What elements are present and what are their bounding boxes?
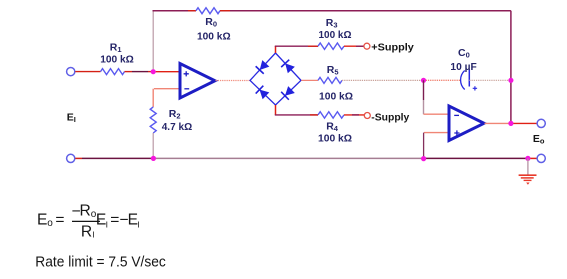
wire R1 to junction — [125, 71, 133, 73]
diode D1 top-left — [256, 60, 270, 74]
node B junction — [508, 78, 513, 83]
wire node A to capacitor — [424, 79, 461, 81]
svg-text:C0: C0 — [458, 47, 470, 60]
wire R4 to -supply terminal — [344, 114, 364, 116]
svg-text:R: R — [80, 203, 91, 220]
wire to op-amp U2 - input — [424, 113, 449, 115]
svg-text:=: = — [110, 211, 119, 228]
wire -supply row — [275, 114, 318, 116]
wire bridge right to R5 — [301, 79, 318, 81]
op-amp U2 minus sign — [454, 114, 459, 116]
wire — [528, 157, 537, 159]
svg-text:R1: R1 — [110, 41, 122, 54]
diode bridge diamond — [250, 53, 301, 105]
svg-text:100 kΩ: 100 kΩ — [100, 54, 134, 66]
wire op-amp - input horizontal — [154, 88, 179, 90]
op-amp U1 minus sign — [184, 88, 189, 90]
resistor R2 — [150, 107, 156, 133]
junction R2 bottom rail — [151, 156, 156, 161]
wire R3 to +supply terminal — [344, 45, 364, 47]
svg-text:R0: R0 — [205, 16, 217, 29]
wire ground stub — [527, 158, 529, 174]
terminal output Eo — [537, 119, 545, 127]
wire op-amp - input vertical — [152, 89, 154, 107]
terminal input bottom-left — [67, 154, 75, 162]
op-amp U1 — [180, 64, 215, 99]
svg-text:I: I — [106, 219, 108, 229]
svg-text:R4: R4 — [326, 120, 339, 133]
wire — [148, 71, 151, 73]
resistor R0 — [196, 8, 220, 14]
svg-text:I: I — [92, 229, 94, 239]
wire — [153, 157, 423, 159]
wire node C to output terminal — [512, 122, 537, 124]
diode D2 top-right — [281, 60, 295, 74]
junction op-amp U2 + to rail — [421, 156, 426, 161]
wire — [424, 157, 528, 159]
resistor R3 — [318, 43, 344, 49]
svg-text:-Supply: -Supply — [371, 111, 409, 123]
wire bridge top riser — [275, 46, 277, 53]
svg-text:10 µF: 10 µF — [450, 61, 477, 73]
resistor R5 — [318, 77, 342, 83]
svg-text:Eo: Eo — [533, 133, 545, 146]
wire junction to op-amp + input — [156, 71, 179, 73]
wire — [308, 45, 318, 47]
op-amp U2 plus sign — [454, 130, 459, 135]
svg-text:4.7 kΩ: 4.7 kΩ — [162, 121, 193, 133]
terminal input top-left — [67, 68, 75, 76]
wire to op-amp U2 + input — [424, 132, 448, 134]
svg-text:100 kΩ: 100 kΩ — [318, 133, 352, 145]
wire — [423, 100, 425, 114]
wire right vertical feedback — [510, 11, 512, 124]
svg-text:R: R — [81, 223, 92, 240]
wire input to R1 — [75, 71, 100, 73]
wire capacitor to node B — [469, 79, 511, 81]
svg-text:R5: R5 — [327, 64, 339, 77]
diode D4 bottom-right — [281, 86, 295, 100]
resistor R4 — [318, 112, 344, 118]
terminal bottom-right — [537, 154, 545, 162]
svg-text:+Supply: +Supply — [371, 41, 414, 53]
wire top rail left — [153, 10, 197, 12]
wire — [82, 157, 153, 159]
op-amp U2 — [449, 106, 484, 141]
wire feedback vertical — [152, 11, 154, 69]
terminal -Supply — [364, 113, 370, 119]
diode D3 bottom-left — [256, 86, 270, 100]
wire — [356, 45, 364, 47]
svg-text:100 kΩ: 100 kΩ — [319, 29, 352, 41]
svg-text:=: = — [55, 211, 64, 228]
capacitor C0 curved plate — [461, 71, 465, 90]
wire op-amp U1 output to bridge — [216, 80, 250, 82]
svg-text:R2: R2 — [169, 108, 181, 121]
terminal +Supply — [364, 43, 370, 49]
wire bottom rail — [75, 157, 82, 159]
svg-text:100 kΩ: 100 kΩ — [319, 90, 353, 102]
wire node A down — [423, 80, 425, 100]
svg-text:E: E — [37, 212, 47, 229]
ground — [519, 175, 537, 185]
wire op-amp U2 output — [485, 122, 511, 124]
equation Eo = -Ro/Ri Ei = -Ei — [37, 203, 140, 241]
op-amp U1 plus sign — [184, 71, 189, 76]
wire op-amp U2 + input vertical — [423, 133, 425, 158]
junction R1 / feedback / op-amp — [151, 69, 156, 74]
svg-text:EI: EI — [67, 112, 76, 125]
wire — [352, 114, 359, 116]
wire R2 to bottom rail — [152, 133, 154, 157]
wire R5 to node A — [342, 79, 424, 81]
wire — [310, 114, 318, 116]
wire +supply row — [275, 45, 318, 47]
svg-text:100 kΩ: 100 kΩ — [197, 30, 231, 42]
capacitor C0 straight plate — [468, 70, 470, 87]
wire — [188, 10, 196, 12]
svg-text:Rate limit = 7.5 V/sec: Rate limit = 7.5 V/sec — [35, 254, 166, 271]
junction ground node — [525, 156, 530, 161]
svg-text:R3: R3 — [326, 17, 338, 30]
node C junction — [508, 121, 513, 126]
wire — [132, 71, 148, 73]
svg-text:o: o — [47, 218, 53, 229]
wire bridge bottom riser — [275, 105, 277, 115]
wire — [220, 10, 230, 12]
node A junction — [421, 78, 426, 83]
wire top rail right — [220, 10, 511, 12]
svg-text:I: I — [137, 219, 139, 229]
capacitor C0 plus polarity mark — [473, 86, 477, 90]
resistor R1 — [101, 69, 125, 75]
